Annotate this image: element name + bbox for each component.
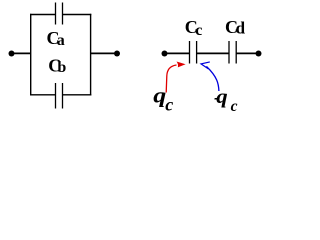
wire left edge of loop bbox=[30, 14, 32, 96]
blue arrow pointing to right plate of Cc bbox=[206, 66, 219, 91]
node B (right terminal of parallel circuit) bbox=[114, 51, 120, 57]
wire from right edge to node B bbox=[91, 52, 117, 54]
wire from Cd to node D bbox=[236, 52, 258, 54]
svg-text:c: c bbox=[231, 98, 238, 112]
node A (left terminal of parallel circuit) bbox=[9, 51, 15, 57]
svg-text:c: c bbox=[165, 94, 173, 112]
svg-text:d: d bbox=[236, 19, 246, 38]
wire bottom edge right segment bbox=[63, 94, 92, 96]
wire between Cc and Cd bbox=[197, 52, 229, 54]
svg-text:c: c bbox=[195, 22, 202, 39]
node D (right terminal of series circuit) bbox=[256, 51, 262, 57]
svg-text:b: b bbox=[57, 59, 66, 76]
wire from node C to Cc bbox=[165, 52, 190, 54]
node C (left terminal of series circuit) bbox=[162, 51, 168, 57]
wire bottom edge left segment bbox=[30, 94, 55, 96]
svg-text:q: q bbox=[216, 85, 228, 107]
capacitor Ca plates bbox=[56, 3, 63, 25]
wire top edge left segment bbox=[30, 14, 55, 16]
svg-text:a: a bbox=[57, 32, 65, 49]
capacitor Cc plates bbox=[190, 41, 197, 64]
capacitor Cb plates bbox=[56, 83, 63, 109]
wire from node A to left edge bbox=[12, 52, 32, 54]
capacitor Cd plates bbox=[229, 41, 236, 64]
wire top edge right segment bbox=[63, 14, 92, 16]
wire right edge of loop bbox=[90, 14, 92, 96]
red arrow pointing to left plate of Cc bbox=[166, 65, 176, 93]
